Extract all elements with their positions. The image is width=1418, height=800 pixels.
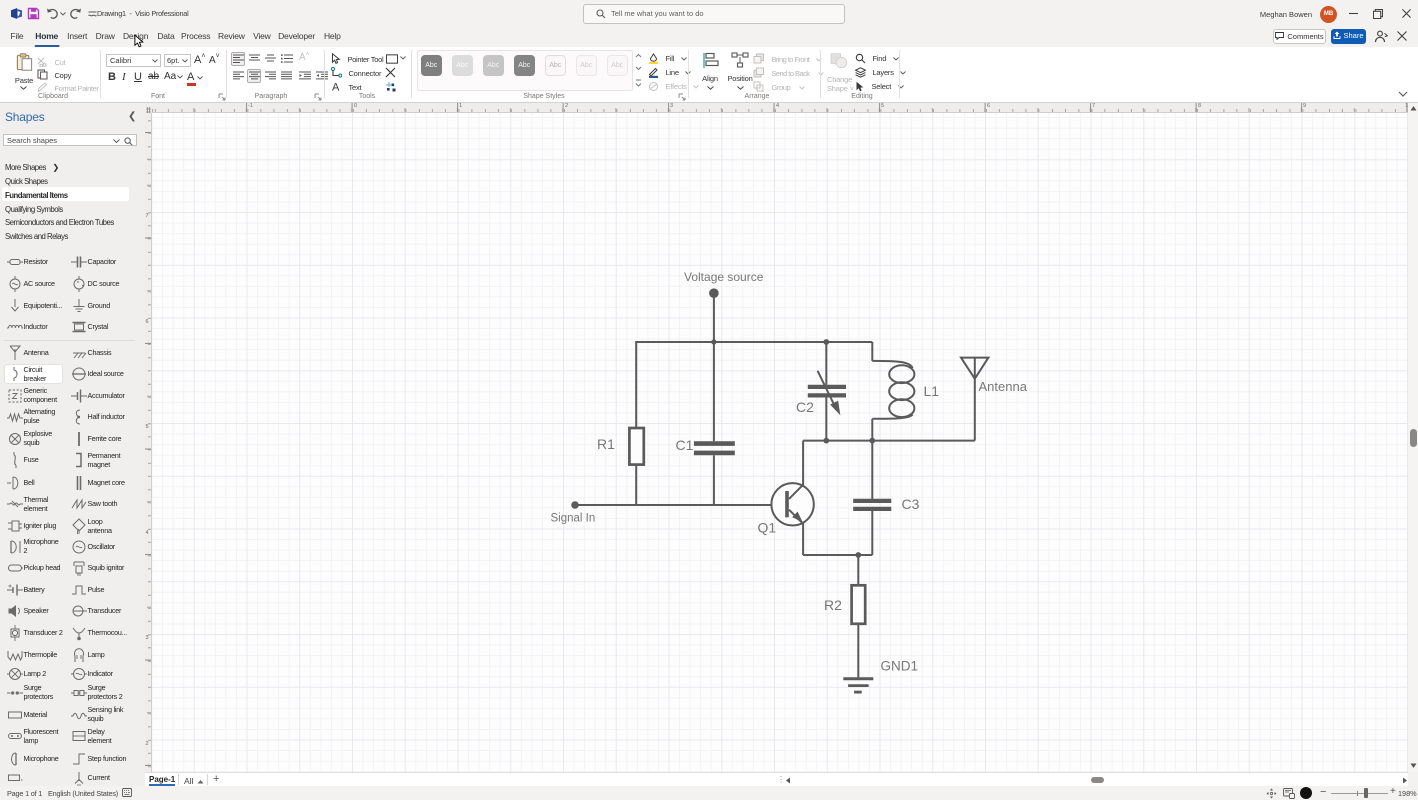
mouse cursor over Design [134, 34, 145, 49]
wire collector node horizontal [803, 440, 975, 442]
collapse ribbon chevron [1398, 91, 1408, 97]
customize QAT [88, 10, 97, 18]
svg-text:Voltage source: Voltage source [684, 270, 764, 284]
wire R1 branch upper [635, 341, 637, 428]
capacitor C2 (variable) [808, 387, 846, 396]
minimize [1338, 0, 1368, 27]
svg-text:Antenna: Antenna [979, 379, 1028, 394]
capacitor C3 [853, 501, 891, 509]
svg-text:R2: R2 [824, 597, 842, 613]
undo [46, 8, 58, 19]
wire voltage source stem [713, 293, 715, 342]
share-person icon [1374, 30, 1388, 43]
wire L1 left upper [871, 342, 873, 361]
row1: vertical align icons [231, 52, 245, 66]
wire signal in horizontal [575, 504, 785, 506]
capacitor C1 [694, 444, 735, 453]
restore [1363, 0, 1393, 27]
redo [70, 8, 82, 19]
node junction top C1 [711, 339, 716, 344]
svg-text:C1: C1 [676, 437, 694, 453]
node junction R2 top [855, 552, 861, 558]
wire Q1 collector vertical [802, 441, 804, 486]
row2 [247, 69, 261, 83]
visio app icon [10, 7, 23, 20]
wire R1 branch lower [635, 465, 637, 505]
wire C3 stem lower [871, 510, 873, 555]
grid major [152, 113, 1408, 772]
svg-text:L1: L1 [924, 383, 940, 399]
wire C1 stem lower [713, 455, 715, 505]
resistor R1 [629, 428, 643, 465]
wire R2 lower [857, 624, 859, 678]
antenna symbol [961, 358, 988, 379]
second close X [1397, 31, 1407, 41]
svg-text:Q1: Q1 [758, 520, 777, 536]
wire top horizontal rail [636, 341, 872, 343]
node signal in terminal [571, 501, 579, 509]
svg-text:GND1: GND1 [881, 659, 919, 674]
wire C2 stem lower [825, 397, 827, 440]
wire Q1 emitter vertical [802, 524, 804, 556]
svg-text:C3: C3 [902, 496, 920, 512]
node junction top C2 [823, 339, 829, 345]
antenna mast [974, 358, 976, 441]
svg-text:C2: C2 [796, 399, 814, 415]
wire C3 stem upper [871, 441, 873, 500]
wire L1 left lower [871, 419, 873, 441]
transistor Q1 [771, 483, 813, 525]
wire C2 stem upper [825, 342, 827, 385]
save icon [27, 7, 40, 20]
resistor R2 [852, 585, 866, 624]
right side [1266, 788, 1277, 799]
ground GND1 [843, 679, 873, 692]
grid fine [152, 113, 1408, 772]
wire R2 upper [857, 555, 859, 585]
node junction C3 top [869, 438, 875, 444]
inductor L1 [872, 361, 914, 419]
svg-text:A: A [332, 82, 340, 93]
svg-text:R1: R1 [597, 436, 615, 452]
wire emitter bottom horizontal [803, 554, 872, 556]
close [1391, 0, 1418, 27]
node voltage source terminal [709, 288, 719, 298]
svg-text:Signal In: Signal In [551, 513, 596, 525]
node junction C2 bottom [823, 438, 829, 444]
wire C1 stem upper [713, 342, 715, 441]
